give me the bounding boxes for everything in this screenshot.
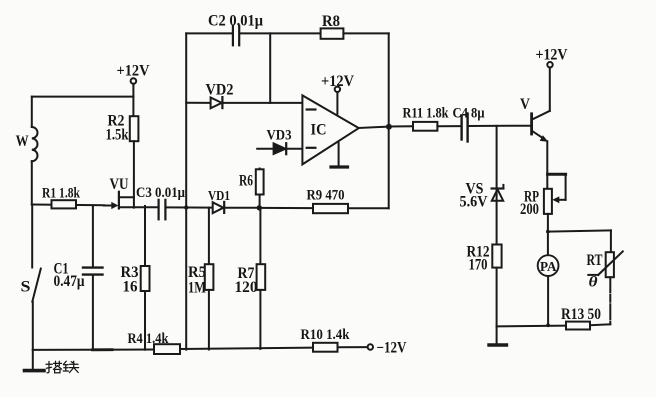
label 搭铁 (chassis ground, hand-drawn CJK) [46,361,79,373]
svg-text:−12V: −12V [377,340,408,357]
power +12V terminal (left) [131,78,137,116]
svg-text:θ: θ [589,274,599,290]
wire VD2 row left [186,102,210,104]
resistor R7 [257,208,266,349]
bottom row wire left segment [33,349,154,351]
wire main row left: W node to VU [32,204,104,207]
svg-text:R10 1.4k: R10 1.4k [301,327,351,343]
svg-text:R1 1.8k: R1 1.8k [42,185,81,201]
svg-text:C3 0.01μ: C3 0.01μ [136,185,185,201]
chassis ground 搭铁 drop [25,350,45,371]
diode VD2 [211,97,223,108]
label R2 1.5k [106,112,129,143]
wire C4 to transistor base [468,125,530,127]
svg-text:+12V: +12V [536,46,569,63]
wire output to R11 [389,125,413,127]
wire node A to R9 [259,207,313,209]
op-amp minus input lower [307,147,316,149]
svg-text:VD1: VD1 [208,188,230,203]
resistor R13 [566,322,590,330]
svg-text:R6: R6 [239,173,253,190]
bottom row wire middle segment [180,348,313,349]
resistor R12 [492,245,501,327]
wire C2 to R8 [240,32,321,34]
capacitor C1 [83,205,103,349]
wire VU to C3 [119,206,158,208]
bold segment on bottom row [93,348,112,351]
svg-text:VU: VU [110,176,129,193]
arrowhead of VU [111,202,118,209]
svg-text:RT: RT [587,252,603,269]
resistor R1 [52,200,77,208]
label R12 170 [467,243,490,273]
wire VD3 row left stub [257,148,273,150]
wire R9 to right box edge [348,207,389,209]
svg-text:170: 170 [469,256,488,273]
svg-text:VD3: VD3 [267,127,292,143]
wire op-amp output to junction [359,127,389,128]
diode VD1 [213,202,225,213]
wire VD1 to node A [224,207,259,209]
op-amp IC triangle [302,95,358,164]
inductor W [32,97,38,205]
label R7 120 [235,265,258,296]
wire long vertical from C2 top wire down to bottom row [185,33,187,349]
svg-text:C4 8μ: C4 8μ [453,106,486,122]
ground (op-amp) [331,143,348,167]
power +12V terminal (right) [547,62,552,67]
svg-text:R11 1.8k: R11 1.8k [403,106,450,122]
svg-text:120: 120 [235,279,258,296]
resistor R2 [130,116,139,207]
wire C3 to VD1 [167,206,213,208]
transducer VU (arrow into bar, stub to R2 lead) [104,192,134,209]
diode VD3 [274,143,287,154]
wire R11 to C4 [437,125,460,127]
svg-text:16: 16 [123,278,138,295]
label VS 5.6V [460,180,489,210]
svg-text:0.47μ: 0.47μ [54,273,85,290]
svg-text:R8: R8 [322,13,340,30]
resistor R8 [321,28,344,38]
transistor V emitter with arrow [533,131,548,188]
label RP 200 [520,188,539,218]
resistor R11 [413,122,437,131]
wire PA upper lead [547,232,549,256]
svg-text:200: 200 [520,201,539,218]
resistor R10 [313,343,338,352]
power -12V terminal [368,344,373,349]
capacitor C3 [159,200,166,220]
wire VD2 to op-amp input [223,102,302,104]
label R3 16 [121,264,139,295]
label C1 0.47u [54,260,85,290]
wire bottom-right row [497,325,566,328]
emitter arrowhead [540,135,549,142]
resistor R9 [313,204,348,213]
wire top of feedback box left segment [186,32,232,34]
capacitor C2 [233,26,239,46]
svg-text:+12V: +12V [321,73,355,90]
zener diode VS [492,126,504,245]
ground (right, below R12 row) [489,326,507,345]
wire loop top horizontal [548,230,611,231]
wire R13 to RT bottom [590,323,610,326]
svg-text:1M: 1M [188,279,206,296]
power +12V terminal (op-amp) [335,87,340,114]
thermistor RT [606,230,614,324]
wire right box edge vertical [388,33,390,208]
junction dot loop top [546,230,550,234]
svg-text:R13 50: R13 50 [561,306,601,323]
op-amp minus input upper [307,108,316,110]
wire R8 to top-right corner [343,32,388,34]
transistor V collector [533,67,550,119]
svg-text:PA: PA [540,260,557,275]
svg-text:IC: IC [311,122,327,139]
svg-text:VD2: VD2 [206,81,234,98]
resistor R6 [256,169,264,208]
label R5 1M [188,264,206,296]
ammeter PA [538,255,559,276]
wire PA lower lead [547,276,549,325]
label R11 1.8k C4 8u [403,106,486,122]
resistor R3 [141,206,150,350]
wire drop from top wire to VD2 row [269,33,271,103]
svg-text:1.5k: 1.5k [106,126,129,143]
switch S [32,205,41,350]
potentiometer RP body [544,189,552,214]
svg-text:S: S [21,278,31,295]
wire R10 to -12V terminal [338,346,368,348]
node A junction dot [257,205,262,210]
junction dot box-left x row [184,205,188,209]
svg-text:V: V [520,96,531,113]
svg-text:5.6V: 5.6V [460,193,489,210]
junction dot PA bottom [546,323,550,327]
wire top-left horizontal W to R2 node [32,96,134,98]
transistor V base bar [530,112,533,135]
svg-text:+12V: +12V [117,63,151,80]
svg-text:R4 1.4k: R4 1.4k [128,331,170,347]
RP wiper arrowhead [552,196,559,203]
capacitor C4 [462,114,468,142]
resistor R4 [154,344,180,354]
svg-text:W: W [16,133,29,150]
RT slash [588,251,623,275]
wire RP bottom to loop top [547,214,549,232]
RP wiper link [548,174,566,200]
node B junction dot (output) [386,124,392,130]
svg-text:R9 470: R9 470 [307,187,345,203]
wire VD3 to op-amp input [287,148,302,150]
resistor R5 [205,208,214,350]
svg-text:C2 0.01μ: C2 0.01μ [208,13,263,30]
